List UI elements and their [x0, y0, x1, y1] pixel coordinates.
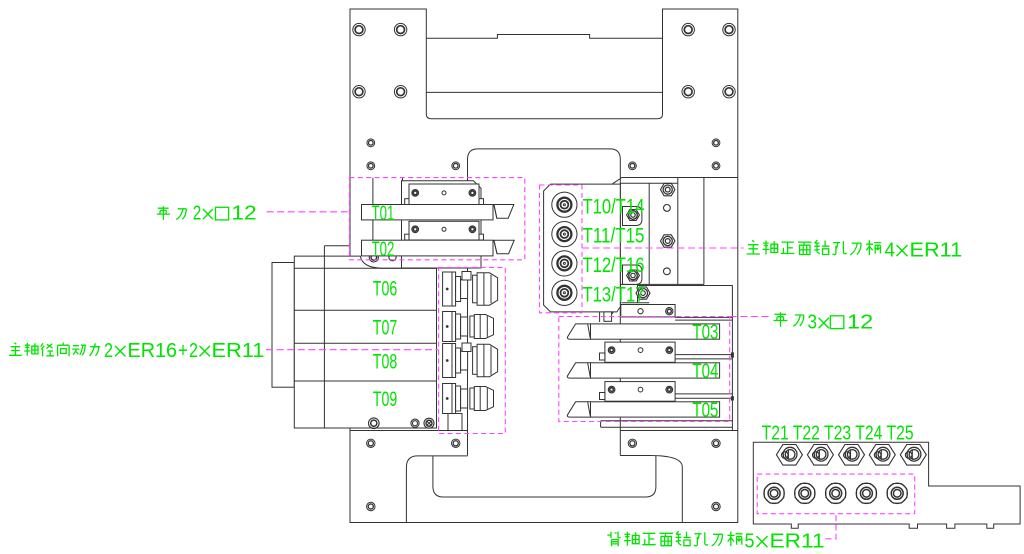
recess outer contour left [406, 456, 467, 523]
rail hole 1 [664, 205, 671, 212]
gib rails T04/T05 [675, 393, 732, 395]
hex bolt above T03 [636, 287, 650, 299]
label front drill holders (CJK) [747, 240, 760, 254]
lower right block [638, 286, 733, 431]
lower slab top edge right [620, 430, 738, 432]
svg-text:ER11: ER11 [910, 240, 963, 262]
svg-text:2: 2 [189, 340, 198, 362]
svg-text:T13/T17: T13/T17 [583, 283, 645, 306]
tool block T06-T09 body [294, 256, 436, 428]
rail tab lower bolt [627, 270, 640, 281]
drill holder plate [544, 184, 621, 312]
clamp block above T03 [621, 305, 675, 317]
bridge top edge with raised step [426, 35, 662, 39]
svg-text:4: 4 [885, 240, 896, 262]
svg-text:T08: T08 [373, 351, 397, 374]
radial collet T08 dog step [462, 343, 471, 352]
tool tip T05 [567, 402, 590, 417]
shaft housing protrusion [272, 263, 294, 388]
hex nut T25 [900, 445, 926, 466]
svg-text:ER11: ER11 [770, 531, 825, 553]
svg-text:12: 12 [847, 312, 873, 334]
leader line to T03 label [730, 316, 772, 318]
svg-text:12: 12 [231, 203, 256, 225]
row divider T06/T07 [294, 309, 436, 311]
lower support rails under T05 [601, 420, 733, 422]
leader line to radial power label [266, 349, 439, 351]
hex nut T23 [839, 445, 865, 466]
drill spindle T11/T15 [552, 222, 577, 247]
ER16 nut T08 [473, 347, 478, 375]
drill spindle T13/T17 [552, 280, 577, 305]
svg-text:T02: T02 [372, 238, 395, 261]
drill spindle T12/T16 [552, 251, 577, 276]
tool tip T03 [567, 324, 590, 339]
dashed box radial collets [439, 267, 506, 433]
right rail columns [648, 183, 650, 284]
tool bar T01 [362, 205, 494, 220]
row divider T08/T09 [294, 380, 436, 382]
tool tip T02 [494, 240, 514, 254]
back spindle plate outline [753, 442, 1020, 528]
block bottom bolts [369, 418, 380, 429]
gib rails above T03 [675, 316, 732, 318]
radial collet T07 spacer [456, 314, 461, 339]
radial collet T08 clamp dog [461, 351, 468, 370]
radial collet T06 spacer [456, 277, 461, 302]
right rail top strip [612, 178, 738, 185]
radial collet T07 mounting plate [443, 312, 456, 342]
svg-text:T10/T14: T10/T14 [583, 195, 645, 218]
recess inner contour [433, 456, 656, 497]
small bracket above T03 tip [604, 312, 612, 321]
svg-text:3: 3 [808, 312, 818, 334]
tool post strip lines [372, 178, 374, 256]
svg-text:2: 2 [193, 203, 202, 225]
hex nut T24 [869, 445, 895, 466]
svg-text:T09: T09 [373, 388, 397, 411]
bolt hole left tower 1 [353, 23, 365, 35]
clamp block T02 [405, 234, 409, 240]
radial collet T06 mounting plate [443, 272, 456, 306]
back collet 3 [826, 483, 846, 503]
rail hex bolt 2 [661, 235, 675, 247]
back collet 2 [795, 483, 815, 503]
slab bolt holes [367, 439, 375, 447]
clamp block T03/T04 [605, 342, 675, 362]
cutter insert mark [608, 312, 614, 316]
block step line upper [324, 246, 350, 428]
small holes upper [367, 139, 375, 147]
dashed box back collets [757, 474, 915, 514]
hex nut T21 [776, 445, 802, 466]
radial collet T09 clamp dog [461, 389, 468, 408]
dashed box tools T01/T02 [349, 178, 524, 260]
radial collet T09 mounting plate [443, 384, 456, 414]
backing block T01/T02 [402, 181, 482, 268]
rail tab upper [623, 207, 642, 226]
tool tip T01 [494, 205, 514, 219]
clamp block T01 [405, 199, 409, 205]
bolts under T02 bar [369, 253, 378, 262]
clamp block T04/T05 [605, 382, 675, 402]
label turning tools 3x12 (CJK) [774, 312, 788, 326]
tool bar T03 [591, 324, 720, 339]
section tick marks [731, 352, 734, 357]
svg-text:2: 2 [104, 340, 113, 362]
tool bar T05 [591, 402, 720, 417]
svg-text:T01: T01 [372, 202, 395, 225]
svg-text:ER16: ER16 [128, 340, 178, 362]
back collet 1 [764, 483, 784, 503]
tool bar T04 [591, 363, 720, 378]
ER11 nut T09 [470, 388, 474, 409]
bridge mid line [426, 91, 662, 93]
radial collet T08 spacer [456, 348, 461, 373]
ER16 nut T06 [473, 275, 478, 303]
gib rails T03/T04 [675, 354, 732, 356]
leader line to front drill label [582, 247, 744, 249]
radial collet T09 spacer [456, 386, 461, 411]
leader line to back drill label [826, 514, 837, 539]
svg-text:T03: T03 [692, 321, 718, 344]
svg-text:T05: T05 [692, 399, 718, 422]
dashed box tools T03-T05 [559, 317, 730, 422]
svg-text:T06: T06 [373, 277, 397, 300]
mounting plate foot below T09 [448, 414, 462, 431]
dashed box drill spindles [540, 185, 583, 313]
label radial power (CJK) [9, 343, 22, 356]
rail tab lower [623, 265, 642, 284]
label back drill holders (CJK) [607, 532, 620, 547]
tool bar T02 [362, 240, 494, 256]
center hump plateau [468, 149, 621, 456]
lower slab top edge left [350, 430, 468, 432]
svg-text:+: + [178, 340, 188, 362]
radial collet T06 dog step [462, 272, 471, 281]
svg-text:T07: T07 [373, 316, 397, 339]
rail tab upper bolt [627, 210, 640, 221]
hex nut T22 [807, 445, 833, 466]
tool tip T04 [567, 363, 590, 378]
svg-text:5: 5 [745, 531, 755, 553]
svg-text:T21 T22 T23 T24 T25: T21 T22 T23 T24 T25 [762, 422, 914, 444]
leader line to T01 label [267, 211, 350, 213]
svg-text:T11/T15: T11/T15 [583, 225, 645, 248]
main plate outline [350, 9, 738, 523]
label turning tools 2x12 (CJK) [157, 206, 170, 220]
rail hex bolt 1 [661, 183, 675, 195]
drill spindle T10/T14 [552, 192, 577, 217]
row divider T07/T08 [294, 342, 436, 344]
ER11 nut T07 [470, 316, 474, 337]
back collet 5 [887, 483, 907, 503]
radial collet T08 mounting plate [443, 344, 456, 378]
radial collet T07 clamp dog [461, 317, 468, 336]
svg-text:T12/T16: T12/T16 [583, 254, 645, 277]
back collet 4 [856, 483, 876, 503]
recess outer contour right [620, 456, 682, 523]
svg-text:T04: T04 [692, 360, 718, 383]
stem below drill plate [599, 312, 601, 322]
block front face edge [294, 267, 436, 269]
radial collet T06 clamp dog [461, 280, 468, 299]
rail hole 2 [664, 268, 671, 275]
svg-text:ER11: ER11 [212, 340, 265, 362]
